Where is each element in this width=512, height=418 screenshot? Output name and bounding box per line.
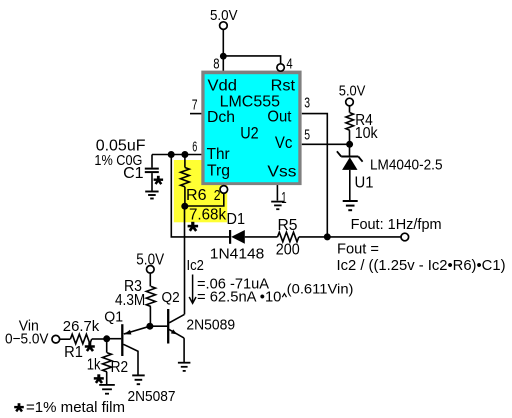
wire R5 to Fout terminal (299, 236, 401, 238)
wire R1 to node (92, 338, 107, 340)
svg-text:8: 8 (213, 57, 219, 73)
svg-text:4.3M: 4.3M (115, 292, 145, 309)
node R1/R2/Q1 base junction (103, 335, 110, 342)
wire pin 3 to Fout node (302, 114, 328, 237)
resistor R1 (70, 334, 91, 344)
wire 5V left to R3 (149, 273, 151, 286)
node pin6/C1 junction (168, 151, 175, 158)
svg-text:4: 4 (286, 57, 292, 73)
svg-text:7.68k: 7.68k (189, 207, 227, 224)
wire R3 to node (149, 307, 151, 327)
svg-text:R6: R6 (186, 187, 207, 204)
wire pin 1 to ground (276, 182, 278, 201)
ground R2 (99, 384, 115, 386)
svg-text:C1: C1 (123, 165, 144, 182)
R6 yellow highlight (174, 160, 227, 222)
svg-text:0−5.0V: 0−5.0V (5, 331, 49, 348)
svg-text:LM4040-2.5: LM4040-2.5 (370, 156, 443, 173)
wire pin 6 node (152, 154, 202, 156)
svg-text:Trg: Trg (207, 163, 230, 180)
svg-text:Vss: Vss (267, 164, 296, 181)
node R6 bottom junction (181, 203, 188, 210)
node pin6/R6 junction (181, 151, 188, 158)
svg-text:5.0V: 5.0V (136, 252, 164, 269)
svg-text:3: 3 (304, 96, 310, 112)
capacitor C1 (145, 155, 159, 191)
wire Vin to R1 (60, 338, 71, 340)
wire junction to pin 4 (223, 56, 280, 64)
svg-text:6: 6 (192, 140, 197, 156)
zener diode U1 (337, 151, 363, 200)
wire node to D1 (left vertical) (171, 155, 230, 237)
svg-text:5.0V: 5.0V (339, 83, 366, 100)
resistor R4 (346, 113, 354, 131)
svg-text:Fout: 1Hz/fpm: Fout: 1Hz/fpm (351, 216, 442, 233)
ground pin 1 (271, 201, 284, 203)
asterisk R2 (97, 374, 100, 379)
ground Q1 collector (132, 374, 145, 376)
svg-text:R2: R2 (111, 359, 129, 376)
wire 5V top to pin 8 (222, 29, 224, 71)
svg-text:Vdd: Vdd (208, 78, 238, 95)
svg-text:Fout =: Fout = (337, 241, 379, 258)
terminal Vin circle (52, 335, 60, 343)
asterisk legend (18, 403, 21, 408)
resistor R2 (106, 339, 108, 353)
svg-text:R1: R1 (64, 344, 83, 361)
terminal 5.0V right (346, 98, 354, 106)
Ic2 current arrow (189, 275, 196, 304)
transistor Q2 (168, 309, 184, 362)
svg-text:Rst: Rst (271, 78, 296, 95)
svg-text:Vc: Vc (275, 133, 293, 152)
svg-text:5: 5 (304, 128, 310, 144)
svg-text:Thr: Thr (207, 146, 231, 163)
svg-text:Out: Out (267, 109, 292, 126)
svg-text:1N4148: 1N4148 (210, 246, 264, 263)
op-amp U2 LMC555 body (201, 71, 301, 186)
wire pin 2 to R6 bottom (185, 193, 224, 206)
svg-text:10k: 10k (355, 125, 379, 142)
node R3/Q1/Q2 junction (146, 323, 153, 330)
resistor R5 (278, 232, 299, 242)
asterisk C1 (157, 176, 160, 181)
svg-text:200: 200 (276, 242, 300, 259)
wire R6 bottom to Q2 collector (184, 206, 186, 314)
terminal pin 2 (220, 186, 228, 194)
svg-text:=1% metal film: =1% metal film (26, 399, 125, 416)
svg-text:5.0V: 5.0V (210, 7, 238, 24)
svg-text:1: 1 (281, 190, 286, 207)
svg-text:2N5089: 2N5089 (186, 317, 235, 334)
wire 5V right to R4 (349, 106, 351, 113)
terminal 5.0V top (220, 22, 228, 30)
svg-text:D1: D1 (227, 211, 246, 228)
resistor R6 (184, 155, 186, 168)
asterisk R6 (191, 222, 194, 228)
svg-text:Q2: Q2 (162, 289, 180, 306)
superscript caret (282, 294, 286, 298)
svg-text:7: 7 (192, 97, 198, 113)
svg-text:2N5087: 2N5087 (128, 388, 176, 405)
svg-text:(0.611Vin): (0.611Vin) (287, 281, 354, 297)
terminal Fout (401, 233, 409, 241)
svg-text:Q1: Q1 (104, 309, 123, 326)
node R3/Q1/Q2 wire (150, 325, 167, 327)
terminal pin 4 (277, 64, 284, 71)
svg-text:1k: 1k (87, 357, 102, 374)
svg-text:Ic2: Ic2 (187, 257, 204, 274)
svg-text:2: 2 (214, 188, 221, 204)
ground C1 (145, 191, 158, 193)
svg-text:Ic2 / ((1.25v - Ic2•R6)•C1): Ic2 / ((1.25v - Ic2•R6)•C1) (337, 257, 506, 274)
node 5V/pin8/pin4 junction (220, 53, 227, 60)
ground U1 (343, 200, 358, 202)
node Fout junction (324, 233, 331, 240)
resistor R3 (146, 286, 155, 306)
svg-text:Dch: Dch (207, 109, 235, 126)
svg-text:U2: U2 (240, 124, 258, 143)
node R4/zener/pin5 junction (346, 141, 353, 148)
ground Q2 emitter (178, 362, 191, 364)
wire R4 to zener (349, 130, 351, 156)
svg-text:= 62.5nA •10: = 62.5nA •10 (197, 289, 281, 306)
wire pin 5 to R4 node (302, 143, 350, 145)
terminal 5.0V left (147, 266, 155, 274)
asterisk R1 (88, 342, 91, 347)
transistor Q1 (107, 324, 150, 374)
svg-text:R5: R5 (278, 217, 298, 234)
svg-text:26.7k: 26.7k (63, 318, 100, 335)
wire pin 7 stub (190, 113, 202, 115)
diode D1 (230, 230, 277, 244)
svg-text:U1: U1 (355, 175, 374, 192)
